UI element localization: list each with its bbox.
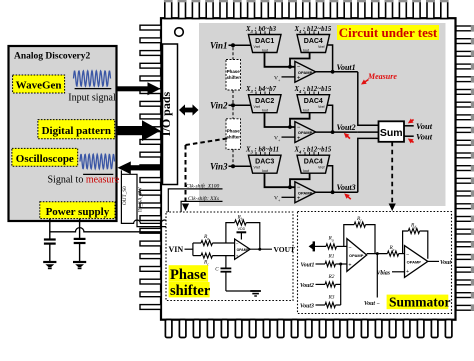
dashed link Sum to Summator <box>389 142 396 211</box>
svg-text:Vref: Vref <box>318 45 324 49</box>
svg-text:DAC4: DAC4 <box>304 98 323 105</box>
svg-text:Iout: Iout <box>262 169 268 173</box>
DAC4 of channel 3 <box>297 155 330 173</box>
wire Vout2 to Sum <box>358 131 379 133</box>
svg-text:+: + <box>406 269 409 275</box>
svg-text:DAC3: DAC3 <box>255 159 274 166</box>
svg-text:−: − <box>348 245 351 251</box>
DAC4 of channel 1 <box>297 35 330 53</box>
wire DAC4 ch1 Vref feedback <box>327 45 332 72</box>
svg-text:Summator: Summator <box>389 295 451 310</box>
measure arrow at Vout- <box>408 139 414 144</box>
svg-text:Vout −: Vout − <box>364 301 380 307</box>
svg-text:shifter: shifter <box>226 134 240 139</box>
svg-text:Sum: Sum <box>380 127 403 139</box>
capacitor C1 <box>44 240 56 262</box>
svg-text:−: − <box>236 241 239 246</box>
svg-text:OPAMP: OPAMP <box>298 190 313 195</box>
wire DAC4 ch2 Iout join <box>288 113 310 129</box>
svg-text:−: − <box>406 252 409 258</box>
svg-text:+: + <box>297 136 301 142</box>
svg-text:I/O pads: I/O pads <box>159 91 173 136</box>
clk net label 2 <box>188 195 219 202</box>
resistor R2 (summator) <box>325 274 341 287</box>
oscilloscope return wire v1 <box>121 170 181 226</box>
op-amp U3 <box>295 182 316 203</box>
digital-pattern-to-chip arrow <box>117 120 161 141</box>
wire DAC4 ch2 Vref feedback <box>327 105 332 132</box>
bus label X3 b4~b7 <box>245 86 277 96</box>
svg-text:Input signal: Input signal <box>68 93 116 104</box>
iopads-panel double arrow <box>179 104 199 115</box>
op-amp U3 non-inverting input <box>274 196 295 203</box>
svg-text:Iout: Iout <box>303 49 309 53</box>
svg-text:Vin1: Vin1 <box>210 41 228 51</box>
svg-text:VIN: VIN <box>169 245 184 254</box>
dashed wire through phase block 2 <box>232 107 234 164</box>
svg-text:Vref: Vref <box>254 105 260 109</box>
svg-text:OPAMP: OPAMP <box>237 248 250 252</box>
op-amp U2 non-inverting input <box>274 136 295 143</box>
power rail wire with hop <box>50 228 162 232</box>
Phase shifter caption <box>169 265 211 299</box>
resistor Ra (phase) <box>193 234 235 246</box>
wire DAC3 Iout to op-amp inverting input <box>265 173 295 187</box>
capacitor C2 <box>74 239 86 262</box>
svg-text:+: + <box>236 253 239 258</box>
svg-text:Vout: Vout <box>416 132 433 142</box>
input terminal symbol (summator) <box>309 241 326 251</box>
wire op-amp U5 output <box>367 252 388 255</box>
circuit-under-test gray panel <box>199 23 446 206</box>
bus label X3 b0~b3 <box>245 26 277 36</box>
pin-1 marker circle <box>175 28 184 37</box>
wire Sum output Vout+ <box>404 121 433 131</box>
svg-text:DAC4: DAC4 <box>304 159 323 166</box>
wire DAC1 Iout to op-amp inverting input <box>265 53 295 67</box>
DAC1 <box>248 35 281 53</box>
phase shifter block 2 <box>226 119 241 150</box>
chip-to-oscilloscope arrow <box>118 161 162 174</box>
svg-text:+: + <box>348 263 351 269</box>
svg-text:Analog Discovery2: Analog Discovery2 <box>14 52 91 62</box>
node VIN <box>169 243 193 256</box>
bus label X4 ch1 <box>294 26 332 36</box>
op-amp U1 non-inverting input <box>274 75 295 82</box>
svg-text:X3 : b8~b11: X3 : b8~b11 <box>245 147 279 155</box>
signal to measure waveform <box>48 154 120 185</box>
resistor R3 (summator) <box>325 295 341 308</box>
node Vout1 (summator) <box>301 263 326 269</box>
wavegen-to-chip arrow <box>117 82 161 95</box>
svg-text:Vout1: Vout1 <box>337 63 356 72</box>
svg-text:V+: V+ <box>274 75 281 82</box>
svg-text:Phase: Phase <box>227 128 240 133</box>
wire DAC4 ch3 Iout join <box>288 173 310 189</box>
summing bus wire <box>340 264 342 305</box>
svg-text:Vout3: Vout3 <box>337 183 356 192</box>
wire Sum output Vout- <box>404 132 433 142</box>
node Vout2 <box>316 123 358 134</box>
svg-text:R3: R3 <box>328 295 335 301</box>
Analog Discovery 2 instrument box <box>9 46 117 221</box>
clk net label 1 <box>186 183 220 190</box>
Digital pattern label <box>38 120 115 139</box>
svg-text:Vout: Vout <box>440 260 451 266</box>
svg-text:Iout: Iout <box>262 49 268 53</box>
svg-text:V+: V+ <box>274 196 281 203</box>
VDD rail (phase) <box>237 227 247 239</box>
resistor Ra (summator) <box>326 235 347 249</box>
bus label X4 ch2 <box>294 86 332 96</box>
DAC4 of channel 2 <box>297 95 330 113</box>
node Vin2 input <box>210 101 251 111</box>
resistor Rd feedback (summator) <box>403 222 428 258</box>
svg-text:Phase: Phase <box>227 69 240 74</box>
Sum block <box>379 121 405 142</box>
svg-text:OPAMP: OPAMP <box>349 253 364 258</box>
node Vout- probe (summator) <box>364 254 380 307</box>
I/O pads block <box>159 44 178 185</box>
svg-text:shifter: shifter <box>170 283 211 299</box>
Power supply label <box>40 202 115 219</box>
op-amp U4 (phase shifter) <box>235 239 251 259</box>
svg-text:VDD: VDD <box>238 227 246 231</box>
svg-text:R2: R2 <box>328 274 335 280</box>
svg-text:Vref: Vref <box>254 45 260 49</box>
node Vin1 input <box>210 41 251 51</box>
DAC2 <box>248 95 281 113</box>
svg-text:Vref: Vref <box>318 105 324 109</box>
resistor Rb feedback (phase) <box>226 215 260 250</box>
svg-text:Vbias: Vbias <box>377 271 391 277</box>
left pin row of chip package <box>140 25 161 309</box>
svg-text:DAC4: DAC4 <box>304 38 323 45</box>
Circuit under test title <box>337 25 439 40</box>
svg-text:+: + <box>297 196 301 202</box>
right pin row of chip package <box>456 25 474 310</box>
svg-text:Vref: Vref <box>318 166 324 170</box>
svg-text:Signal to measure: Signal to measure <box>48 174 120 185</box>
svg-text:OPAMP: OPAMP <box>298 70 313 75</box>
Oscilloscope label <box>12 148 78 166</box>
svg-text:Measure: Measure <box>367 72 397 81</box>
ground (phase) <box>226 291 261 296</box>
svg-text:Vout3: Vout3 <box>300 304 314 310</box>
svg-text:Iout: Iout <box>303 169 309 173</box>
svg-text:Vout: Vout <box>416 121 433 131</box>
capacitor C (phase) <box>215 256 231 291</box>
rotated net label IN <box>138 187 144 212</box>
node Vin3 input <box>210 162 251 172</box>
ground under C1 <box>43 262 56 269</box>
svg-text:IN_SA_0W: IN_SA_0W <box>138 187 144 212</box>
svg-text:shifter: shifter <box>226 75 240 80</box>
Summator caption <box>387 295 451 310</box>
svg-text:Phase: Phase <box>170 267 207 283</box>
rotated net label OUT <box>122 186 128 205</box>
svg-text:DAC1: DAC1 <box>255 38 274 45</box>
top pin row of chip package <box>164 0 449 19</box>
DAC3 <box>248 155 281 173</box>
measure arrow at Vout2 <box>344 133 350 139</box>
svg-text:Vout2: Vout2 <box>300 283 314 289</box>
svg-text:WaveGen: WaveGen <box>16 80 62 92</box>
measure annotation <box>361 72 397 85</box>
resistor Rf feedback (summator) <box>344 216 375 254</box>
resistor Rc (phase) <box>193 253 235 266</box>
svg-text:+: + <box>297 76 301 82</box>
power supply wire to capacitor C2 <box>79 219 81 239</box>
input signal waveform <box>68 71 116 104</box>
node Vbias <box>377 271 405 277</box>
svg-text:Clk-shift_X100: Clk-shift_X100 <box>186 183 220 190</box>
node Vout output (summator) <box>428 260 452 266</box>
summator detail box <box>298 212 452 314</box>
svg-text:DAC2: DAC2 <box>255 98 274 105</box>
op-amp U1 <box>295 61 316 82</box>
phase shifter detail box <box>166 212 293 301</box>
WaveGen label <box>13 75 65 93</box>
phase shifter block 1 <box>226 60 241 91</box>
op-amp U2 <box>295 122 316 143</box>
dashed link phase block to phase shifter detail <box>182 139 227 212</box>
resistor R1 (summator) <box>325 254 347 267</box>
svg-text:Vin2: Vin2 <box>210 101 228 111</box>
node Vout3 (summator) <box>300 304 325 310</box>
op-amp U6 (summator) <box>405 246 428 278</box>
svg-text:Vout1: Vout1 <box>301 263 315 269</box>
dashed wire through phase block 1 <box>232 47 234 103</box>
wire DAC4 ch3 Vref feedback <box>327 166 332 193</box>
svg-text:Iout: Iout <box>303 109 309 113</box>
svg-text:OPAMP: OPAMP <box>407 260 422 265</box>
wire Vout3 to Sum <box>358 138 379 192</box>
wire DAC2 Iout to op-amp inverting input <box>265 113 295 127</box>
svg-text:Vref: Vref <box>254 166 260 170</box>
svg-text:R1: R1 <box>328 254 335 260</box>
op-amp U5 (summator) <box>347 239 367 272</box>
bus label X3 b8~b11 <box>245 147 279 157</box>
wire Vout1 to Sum <box>358 72 379 125</box>
wire DAC4 ch1 Iout join <box>288 53 310 69</box>
measure arrow at Vout3 <box>344 193 351 199</box>
svg-text:Power supply: Power supply <box>46 206 110 218</box>
svg-text:VOUT: VOUT <box>274 245 296 254</box>
resistor Rx (summator) <box>387 245 404 256</box>
svg-text:Clk-shift: XXs: Clk-shift: XXs <box>188 195 219 202</box>
node Vout3 <box>316 183 358 194</box>
svg-text:Circuit under test: Circuit under test <box>339 25 438 40</box>
clk wire risers <box>168 189 222 227</box>
ground under C2 <box>73 262 86 269</box>
svg-text:OPAMP: OPAMP <box>298 130 313 135</box>
svg-text:Iout: Iout <box>262 109 268 113</box>
bus label X4 ch3 <box>294 147 332 157</box>
bottom pin row of chip package <box>165 320 452 338</box>
svg-text:V+: V+ <box>274 136 281 143</box>
node Vout1 <box>316 63 358 74</box>
svg-text:Vout2: Vout2 <box>337 123 356 132</box>
node VOUT (phase) <box>250 245 295 254</box>
svg-text:OUT_S0: OUT_S0 <box>122 186 128 205</box>
node Vout2 (summator) <box>300 283 325 289</box>
svg-text:Oscilloscope: Oscilloscope <box>16 153 74 165</box>
measure arrow at Vout+ <box>408 119 414 124</box>
svg-text:Vin3: Vin3 <box>210 162 228 172</box>
chip body <box>161 18 456 320</box>
svg-text:Digital pattern: Digital pattern <box>42 125 111 137</box>
power supply wire to capacitor C1 <box>49 219 51 239</box>
